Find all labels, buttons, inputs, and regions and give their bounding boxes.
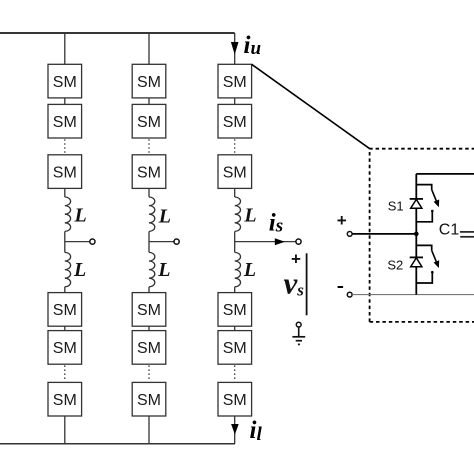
switch S2 arrowhead (434, 260, 440, 268)
diode D1 triangle (411, 199, 422, 208)
svg-text:L: L (243, 259, 256, 281)
leg2 lower arm inductor L (149, 252, 155, 286)
switch S1 arrowhead (434, 200, 440, 208)
SM terminal - label (338, 286, 344, 288)
svg-text:L: L (74, 204, 87, 226)
svg-text:SM: SM (223, 340, 247, 357)
leg1 wire between inductors (64, 231, 66, 252)
leg1 SM2 box (48, 104, 82, 138)
ground bar 2 (296, 340, 302, 342)
leg2 SM6 box (132, 382, 166, 416)
zoom leader line to SM detail (252, 64, 370, 148)
current arrow i_l (231, 424, 239, 435)
leg1 wire SM6 to bottom rail (64, 416, 66, 444)
leg1 SM1 box (48, 64, 82, 98)
leg3 wire SM4-SM5 (234, 326, 236, 330)
leg3 wire rail to SM1 (234, 33, 236, 64)
leg2 wire SM4-SM5 (148, 326, 150, 330)
leg3 ac output wire (235, 241, 296, 243)
SM - terminal (347, 292, 352, 297)
svg-text:SM: SM (223, 114, 247, 131)
svg-text:L: L (73, 259, 86, 281)
top dc rail (0, 32, 235, 34)
ground bar 3 (298, 343, 300, 345)
svg-text:SM: SM (223, 74, 247, 91)
leg2 wire rail to SM1 (148, 33, 150, 64)
leg1 wire rail to SM1 (64, 33, 66, 64)
leg3 SM2 box (218, 104, 252, 138)
svg-text:SM: SM (53, 392, 77, 409)
switch S1 upper branch (416, 185, 431, 190)
diode D1 cathode bar (410, 198, 423, 200)
capacitor C1 bottom plate (460, 236, 474, 238)
leg2 ac tap wire (149, 241, 174, 243)
svg-text:SM: SM (53, 74, 77, 91)
leg2 dotted wire SM5-SM6 (148, 365, 150, 381)
leg2 wire SM1-SM2 (148, 98, 150, 105)
leg2 wire SM6 to bottom rail (148, 416, 150, 444)
junction node dot (414, 232, 419, 237)
half-bridge main vertical wire (415, 174, 417, 295)
leg2 upper arm inductor L (149, 197, 155, 231)
svg-text:+: + (337, 211, 347, 230)
leg3 SM6 box (218, 382, 252, 416)
leg3 dotted wire SM2-SM3 (234, 139, 236, 154)
diode D2 cathode bar (410, 256, 423, 258)
leg2 SM2 box (132, 104, 166, 138)
ground terminal circle (296, 322, 301, 327)
switch S2 upper branch (416, 245, 431, 250)
leg1 lower arm inductor L (65, 252, 71, 286)
half-bridge top wire (416, 173, 474, 175)
dashed SM detail box (370, 149, 474, 322)
current arrow i_s (275, 238, 285, 245)
svg-text:SM: SM (137, 164, 161, 181)
leg2 SM3 box (132, 155, 166, 189)
leg3 SM1 box (218, 64, 252, 98)
SM + input wire (352, 233, 416, 235)
svg-text:S2: S2 (387, 257, 403, 272)
SM + terminal (347, 232, 352, 237)
switch S2 blade (432, 250, 437, 262)
ac terminal i_s (296, 239, 301, 244)
leg3 wire SM3 to upper inductor (234, 188, 236, 197)
leg1 ac tap wire (65, 241, 90, 243)
leg3 SM5 box (218, 331, 252, 365)
switch S2 contact dot (431, 271, 434, 274)
leg1 wire SM4-SM5 (64, 326, 66, 330)
svg-text:SM: SM (53, 114, 77, 131)
vs measurement bar (306, 253, 308, 315)
svg-text:SM: SM (137, 74, 161, 91)
svg-text:L: L (158, 205, 171, 227)
svg-text:S1: S1 (388, 198, 404, 213)
leg1 wire SM3 to upper inductor (64, 188, 66, 197)
leg3 lower arm inductor L (235, 252, 241, 286)
leg3 wire between inductors (234, 231, 236, 252)
diode D2 triangle (411, 258, 422, 267)
ground bar 1 (292, 336, 305, 338)
leg3 wire SM1-SM2 (234, 98, 236, 105)
svg-text:SM: SM (53, 164, 77, 181)
leg2 ac terminal (174, 239, 179, 244)
ground stem (298, 327, 300, 337)
leg3 upper arm inductor L (235, 197, 241, 231)
switch S2 lower contact (416, 273, 432, 283)
leg1 SM4 box (48, 293, 82, 327)
leg2 SM1 box (132, 64, 166, 98)
leg1 SM6 box (48, 382, 82, 416)
switch S1 lower contact (416, 212, 432, 222)
svg-text:L: L (243, 204, 256, 226)
leg2 SM4 box (132, 293, 166, 327)
svg-text:SM: SM (223, 164, 247, 181)
svg-text:SM: SM (223, 302, 247, 319)
leg3 SM4 box (218, 293, 252, 327)
svg-text:C1: C1 (439, 222, 460, 239)
leg2 wire inductor to SM4 (148, 287, 150, 293)
leg1 dotted wire SM5-SM6 (64, 365, 66, 381)
leg3 wire inductor to SM4 (234, 287, 236, 293)
capacitor C1 top plate (460, 231, 474, 233)
svg-text:SM: SM (53, 340, 77, 357)
svg-text:L: L (157, 259, 170, 281)
leg3 dotted wire SM5-SM6 (234, 365, 236, 381)
leg1 SM5 box (48, 331, 82, 365)
svg-text:SM: SM (53, 302, 77, 319)
leg2 SM5 box (132, 331, 166, 365)
svg-text:SM: SM (137, 392, 161, 409)
leg3 wire SM6 to bottom rail (234, 416, 236, 444)
switch S1 blade (432, 190, 437, 202)
leg2 wire SM3 to upper inductor (148, 188, 150, 197)
leg1 upper arm inductor L (65, 197, 71, 231)
leg3 SM3 box (218, 155, 252, 189)
switch S1 contact dot (431, 210, 434, 213)
leg1 dotted wire SM2-SM3 (64, 139, 66, 154)
current arrow i_u (231, 42, 239, 55)
svg-text:SM: SM (223, 392, 247, 409)
leg1 wire inductor to SM4 (64, 287, 66, 293)
leg1 ac terminal (90, 239, 95, 244)
svg-text:SM: SM (137, 114, 161, 131)
leg2 dotted wire SM2-SM3 (148, 139, 150, 154)
svg-text:SM: SM (137, 302, 161, 319)
bottom dc rail (0, 443, 235, 445)
leg1 wire SM1-SM2 (64, 98, 66, 105)
leg2 wire between inductors (148, 231, 150, 252)
leg1 SM3 box (48, 155, 82, 189)
SM - input wire (352, 294, 474, 296)
svg-text:SM: SM (137, 340, 161, 357)
